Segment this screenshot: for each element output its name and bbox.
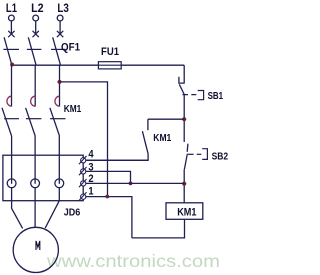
wire terminal 3 line [86,171,131,183]
breaker QF1 pole 3 X contact [57,31,63,37]
JD6 terminal 2 circle [81,181,86,186]
wire box to motor middle [34,201,36,228]
wire L2 to QF1 [35,21,37,34]
contactor KM1 pole 2 blade [26,108,36,136]
breaker QF1 pole 2 X contact [33,31,39,37]
wire terminal 2 line [86,182,184,184]
svg-text:KM1: KM1 [177,206,196,218]
contactor KM1 pole 2 arc [31,96,36,106]
junction dot SB1 bottom [182,117,186,121]
wire coil bottom return [132,219,185,238]
wire KM1 aux lower [86,154,148,161]
contactor KM1 pole 2 wire [34,65,36,106]
wire branch to control [60,82,108,197]
wire box to motor left [12,201,23,229]
motor terminal circle 3 [55,179,64,188]
contactor KM1 pole 1 arc [7,96,12,106]
motor M1 circle [13,227,58,272]
motor terminal circle 1 [7,179,16,188]
pushbutton SB2 cap [202,149,207,160]
wire terminal 4 line [86,159,148,161]
svg-text:L2: L2 [31,1,44,15]
QF1 linkage dash 3 [51,48,66,50]
fuse FU1 [98,62,121,69]
junction dot bus [10,63,14,67]
svg-text:www.cntronics.com: www.cntronics.com [46,251,220,271]
coil KM1 [166,203,203,220]
pushbutton SB1 blade [179,84,184,94]
wire KM1 pole 1 to box [11,136,13,200]
svg-text:FU1: FU1 [101,46,119,58]
wire SB2 to coil [183,169,185,202]
svg-text:SB2: SB2 [212,151,229,162]
KM1 linkage dash 3 [50,118,66,120]
wire box to motor right [45,201,59,228]
wire SB1 to junction [183,95,185,143]
junction dot line3 to line2 [129,182,133,186]
breaker QF1 pole 1 X contact [8,31,14,37]
svg-text:JD6: JD6 [64,208,81,219]
QF1 linkage dash 2 [27,48,42,50]
KM1 linkage dash 1 [4,118,19,120]
wire L3 to QF1 [59,21,61,34]
terminal circle L3 [57,15,63,21]
junction dot SB2 bottom [182,182,186,186]
junction dot line1 [105,195,109,199]
wire L1 to QF1 [10,21,12,34]
contactor KM1 pole 3 blade [50,108,60,136]
svg-text:1: 1 [88,185,93,197]
terminal circle L2 [33,15,39,21]
svg-text:KM1: KM1 [153,133,171,144]
contact KM1 aux upper terminal [147,119,149,130]
contactor KM1 pole 1 blade [2,108,12,136]
breaker QF1 pole 1 blade [4,37,12,65]
label M [36,241,40,250]
wire KM1 pole 3 to box [58,136,60,200]
JD6 terminal 1 circle [81,194,86,199]
wire aux branch top [148,118,184,120]
svg-text:KM1: KM1 [64,104,82,115]
pushbutton SB1 seat [179,77,185,83]
contactor KM1 pole 1 wire [11,65,13,106]
wire bus L1 phase [12,64,184,66]
pushbutton SB2 blade lower [184,155,187,169]
pushbutton SB2 actuator dash [197,153,202,155]
wire KM1 pole 2 to box [34,136,36,200]
svg-text:QF1: QF1 [61,42,80,54]
wire terminal 1 line [86,197,132,238]
contact KM1 aux blade [142,131,148,154]
QF1 linkage dash 1 [3,48,19,50]
svg-text:SB1: SB1 [208,91,224,102]
breaker QF1 pole 2 blade [28,37,36,65]
svg-text:L3: L3 [57,1,69,15]
pushbutton SB1 actuator dashes [183,94,197,96]
contactor KM1 pole 3 wire [59,65,61,106]
pushbutton SB1 cap [198,91,204,100]
JD6 terminal 3 circle [81,169,86,174]
pushbutton SB2 blade upper [186,144,189,152]
motor terminal circle 2 [31,179,40,188]
terminal box JD6 [3,155,83,201]
contactor KM1 pole 3 arc [55,96,60,106]
junction dot phase 3 branch [58,80,62,84]
breaker QF1 pole 3 blade [53,37,61,65]
JD6 terminal 4 circle [81,158,86,163]
KM1 linkage dash 2 [26,118,42,120]
svg-text:4: 4 [88,148,94,160]
pushbutton SB2 tick [187,153,194,155]
terminal circle L1 [9,15,15,21]
wire control drop from bus [183,65,185,83]
svg-text:L1: L1 [6,1,17,15]
